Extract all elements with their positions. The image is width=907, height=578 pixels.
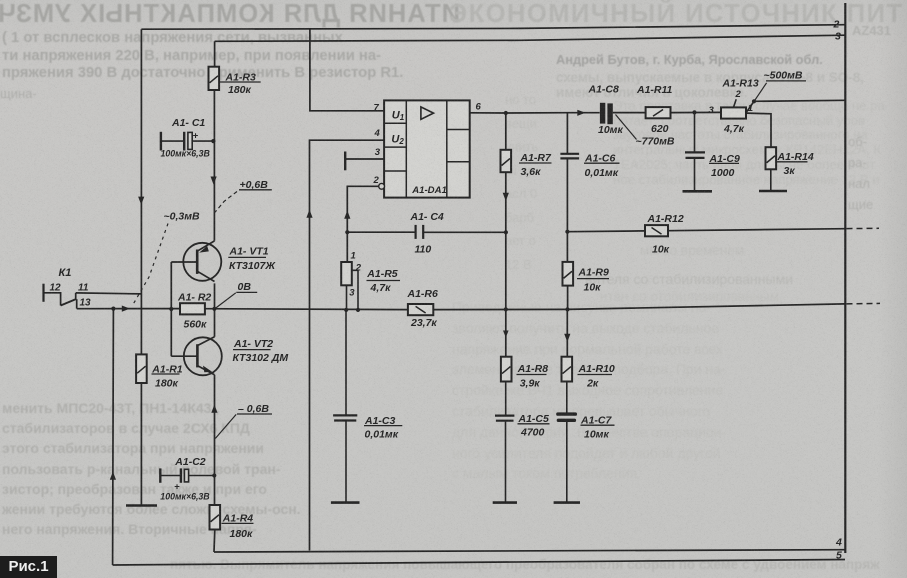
resistor R14 xyxy=(766,147,777,169)
underline R8 xyxy=(517,374,547,376)
leader ~0.3mV dashed xyxy=(133,224,168,305)
wire R3 rail top xyxy=(214,41,216,66)
R5 wiper lead xyxy=(352,270,358,310)
junction dot pin6-R7 xyxy=(504,111,508,115)
wire pin 2 xyxy=(347,186,378,262)
resistor R2 xyxy=(180,303,205,314)
capacitor C3 plates xyxy=(333,415,357,420)
svg-text:A1- R2: A1- R2 xyxy=(177,291,211,303)
arrow down on R7 rail xyxy=(503,193,509,201)
svg-text:A1- C1: A1- C1 xyxy=(171,117,205,129)
label ~770mV xyxy=(636,135,675,147)
resistor R9 xyxy=(563,262,574,286)
capacitor C2 plate xyxy=(180,468,182,482)
junction dot R7 main xyxy=(504,307,508,311)
wire C2 right lead xyxy=(189,475,215,477)
svg-text:180к: 180к xyxy=(155,378,179,390)
label ~500mV xyxy=(764,70,803,82)
arrow on main wire xyxy=(122,306,130,312)
svg-text:10мк: 10мк xyxy=(598,124,623,136)
switch K1 terminal 12 tick xyxy=(42,284,44,302)
label U2 cell xyxy=(391,133,404,146)
svg-text:10мк: 10мк xyxy=(584,428,609,440)
label A1-C8 xyxy=(588,83,620,95)
wire main to C3 xyxy=(345,310,347,416)
svg-text:A1-R8: A1-R8 xyxy=(517,363,549,375)
wire bottom rail B to terminal 5 xyxy=(113,560,845,566)
underline R7 xyxy=(519,162,552,164)
junction dot R12 wire xyxy=(565,230,569,234)
underline C5 xyxy=(518,423,550,425)
svg-text:3: 3 xyxy=(709,105,715,116)
svg-text:110: 110 xyxy=(415,243,432,255)
underline -0.6V xyxy=(237,413,272,415)
label A1-VT2 xyxy=(233,338,273,350)
svg-text:К1: К1 xyxy=(59,267,72,279)
arrow on stem xyxy=(110,472,116,480)
value R10 2k xyxy=(586,377,599,389)
svg-text:3: 3 xyxy=(349,287,355,298)
capacitor C1 common bar xyxy=(160,132,162,151)
wire R1 to common stub xyxy=(140,383,142,506)
svg-text:A1-C7: A1-C7 xyxy=(580,414,613,426)
value C7 10mk xyxy=(584,428,609,440)
leader ~500mV xyxy=(755,83,767,101)
switch pin 12 label xyxy=(50,282,62,293)
value C3 0.01mk xyxy=(365,428,399,440)
wire base rail xyxy=(170,262,172,356)
svg-text:A1-R7: A1-R7 xyxy=(520,152,553,164)
op-amp left cell line 2 xyxy=(384,146,406,148)
wire C4 right lead xyxy=(423,231,506,233)
R13 pin 1 label xyxy=(748,103,753,114)
underline C7 xyxy=(581,424,615,426)
wire switch terminal 12 lead xyxy=(44,293,61,306)
wire R14 to common xyxy=(770,169,772,191)
arrow up on pin4 rail xyxy=(306,210,312,218)
wire pin 4 xyxy=(310,140,385,550)
wire output to frame xyxy=(754,100,845,101)
label A1-C5 xyxy=(518,413,550,425)
wire R7 to main xyxy=(505,172,507,309)
value C5 4700 xyxy=(520,427,545,439)
wire VT2 emitter down xyxy=(214,375,216,505)
junction dot C4 left xyxy=(345,230,349,234)
label A1-R4 xyxy=(222,513,254,525)
svg-text:4,7к: 4,7к xyxy=(370,282,392,294)
op-amp triangle symbol xyxy=(421,107,434,119)
svg-text:+: + xyxy=(193,131,199,142)
label VT1 type KT3107Zh xyxy=(229,260,276,272)
wire C6 to R9 xyxy=(566,158,568,262)
label A1-DA1 xyxy=(411,185,447,196)
underline R14 xyxy=(777,161,808,163)
underline R10 xyxy=(578,374,613,376)
R5 pin 1 label xyxy=(351,251,356,262)
label A1-R13 xyxy=(722,78,759,90)
underline VT1 xyxy=(228,256,266,258)
value R6 23.7k xyxy=(410,317,437,329)
svg-text:КТ3107Ж: КТ3107Ж xyxy=(229,260,276,272)
wire C4 left lead xyxy=(347,231,415,233)
wire R12 right xyxy=(668,229,845,231)
svg-text:A1- C4: A1- C4 xyxy=(410,211,444,223)
R13 pin 2 label xyxy=(735,89,742,100)
label A1-R1 xyxy=(151,364,183,376)
R13 pin 3 label xyxy=(709,105,715,116)
underline 0V xyxy=(236,291,257,293)
value R14 3k xyxy=(784,165,796,177)
svg-text:560к: 560к xyxy=(184,318,208,330)
svg-text:A1-R10: A1-R10 xyxy=(578,363,615,375)
op-amp left strip divider xyxy=(405,100,407,197)
arrow down above R8 xyxy=(503,331,509,338)
label U1 cell xyxy=(392,110,405,123)
svg-text:A1-DA1: A1-DA1 xyxy=(411,185,447,196)
underline R3 xyxy=(220,81,261,83)
capacitor C5 plates xyxy=(495,416,514,421)
svg-text:12: 12 xyxy=(50,282,62,293)
value R13 4.7k xyxy=(723,123,745,135)
wire C1 left lead xyxy=(161,140,184,142)
wire main horizontal (node 0V line) xyxy=(77,308,180,310)
wire main to R8 xyxy=(505,309,507,356)
wire C8 to R11 xyxy=(613,112,646,114)
common bar pin 3 xyxy=(344,152,346,171)
arrow up on pin2 rail xyxy=(344,211,350,219)
common bar below C9 xyxy=(683,190,713,193)
svg-text:2: 2 xyxy=(735,89,742,100)
svg-text:КТ3102 ДМ: КТ3102 ДМ xyxy=(233,352,289,364)
label A1-R2 xyxy=(177,291,211,303)
resistor R4 xyxy=(210,505,221,530)
op-amp left cell line 1 xyxy=(384,122,406,124)
label A1-R5 xyxy=(366,268,398,280)
label A1-R11 xyxy=(636,84,673,96)
svg-text:0,01мк: 0,01мк xyxy=(585,167,619,179)
svg-text:2: 2 xyxy=(833,19,840,31)
label A1-C3 xyxy=(364,415,396,427)
label -0.6V xyxy=(238,403,269,415)
op-amp pin 3 label xyxy=(375,147,381,158)
svg-text:180к: 180к xyxy=(230,528,254,540)
wire switch contact 11 to left rail xyxy=(76,293,142,294)
label A1-R12 xyxy=(647,213,684,225)
arrow up on VT2 emitter rail xyxy=(211,405,217,413)
leader ~770mV xyxy=(616,115,637,140)
VT2 emitter xyxy=(197,366,214,375)
svg-text:A1-R11: A1-R11 xyxy=(636,84,673,96)
value R4 180k xyxy=(230,528,254,540)
wire R11 to R13 xyxy=(671,111,722,113)
common bar below C5 xyxy=(493,501,517,504)
value R5 4.7k xyxy=(370,282,392,294)
terminal 3 label xyxy=(835,30,841,42)
terminal 2 label xyxy=(833,19,840,31)
terminal 5 label xyxy=(836,550,842,562)
frame right border line xyxy=(844,3,846,553)
resistor R8 xyxy=(501,357,512,382)
VT2 base lead xyxy=(171,355,197,357)
svg-text:A1-C5: A1-C5 xyxy=(518,413,550,425)
wire stem to bottom rail 5 xyxy=(112,309,115,565)
switch contact 11 stub xyxy=(75,293,77,299)
common bar below C3 xyxy=(331,501,360,504)
wire main to R10 xyxy=(566,309,568,356)
wire pin 7 xyxy=(310,29,384,111)
svg-text:A1- VT2: A1- VT2 xyxy=(233,338,273,350)
svg-text:4: 4 xyxy=(835,537,842,549)
leader -0.6V xyxy=(215,414,236,438)
value R2 560k xyxy=(184,318,208,330)
wire R10 to C7 xyxy=(566,382,568,414)
underline R9 xyxy=(577,278,609,280)
svg-text:4: 4 xyxy=(374,128,381,139)
value C9 1000 xyxy=(711,167,735,179)
svg-text:100мк×6,3В: 100мк×6,3В xyxy=(160,492,210,502)
VT1 emitter xyxy=(197,241,214,253)
value C2 100mk xyxy=(160,492,210,502)
svg-text:3к: 3к xyxy=(784,165,796,177)
svg-text:4,7к: 4,7к xyxy=(723,123,745,135)
transistor VT2 circle xyxy=(184,337,222,375)
wire R8 to C5 xyxy=(505,382,507,416)
common bar below C7 xyxy=(554,501,580,504)
label A1-C7 xyxy=(580,414,613,426)
svg-text:13: 13 xyxy=(80,297,92,308)
VT1 collector xyxy=(197,271,214,281)
wire pin 3 xyxy=(345,158,384,160)
wire C1 right lead xyxy=(192,140,213,142)
op-amp pin 4 label xyxy=(374,128,381,139)
value R7 3.6k xyxy=(521,166,542,178)
svg-text:A1-R6: A1-R6 xyxy=(407,288,439,300)
wire C3 to common xyxy=(345,421,347,503)
op-amp mid divider xyxy=(446,100,448,197)
value R1 180k xyxy=(155,378,179,390)
svg-text:A1- VT1: A1- VT1 xyxy=(229,246,269,258)
potentiometer R13 xyxy=(721,107,746,118)
potentiometer R5 xyxy=(341,262,352,285)
wire C7 to common xyxy=(566,422,568,503)
svg-text:A1-C2: A1-C2 xyxy=(174,456,206,468)
label A1-R3 xyxy=(225,72,257,84)
underline C9 xyxy=(709,162,739,164)
svg-text:~0,3мВ: ~0,3мВ xyxy=(164,211,200,223)
op-amp right cell line 2 xyxy=(447,161,470,163)
label A1-C4 title xyxy=(410,211,444,223)
svg-text:0В: 0В xyxy=(238,281,252,293)
switch K1 blade xyxy=(61,299,77,306)
switch pin 13 label xyxy=(80,297,92,308)
svg-text:0,01мк: 0,01мк xyxy=(365,428,399,440)
value R9 10k xyxy=(584,282,602,294)
op-amp U1 outer box xyxy=(384,100,470,197)
R5 bottom lead xyxy=(346,285,348,310)
underline R1 xyxy=(152,373,180,375)
arrow on left rail xyxy=(138,197,144,205)
switch pin 11 label xyxy=(78,282,89,293)
switch K1 label xyxy=(59,267,72,279)
junction dot 0V node xyxy=(212,307,216,311)
capacitor C9 plates xyxy=(685,152,705,158)
switch contact 13 stub xyxy=(76,299,78,308)
wire bottom rail A to terminal 4 xyxy=(214,550,845,552)
junction dot base rail xyxy=(169,307,173,311)
VT2 collector xyxy=(197,337,214,346)
svg-text:620: 620 xyxy=(651,123,669,135)
svg-text:3: 3 xyxy=(835,30,841,42)
underline C6 xyxy=(584,162,620,164)
label A1-R10 xyxy=(578,363,615,375)
op-amp pin 2 label xyxy=(373,175,380,186)
R5 pin 3 label xyxy=(349,287,355,298)
capacitor C2 plus electrode xyxy=(174,469,188,492)
wire main right xyxy=(433,304,845,310)
wire R9 to main xyxy=(567,286,569,310)
label +0.6V xyxy=(240,179,269,191)
VT1 base bar xyxy=(196,250,199,274)
wire top rail to terminal 2 xyxy=(141,25,845,30)
junction dot C4 right xyxy=(504,230,508,234)
svg-text:2: 2 xyxy=(373,175,380,186)
label A1-R6 xyxy=(407,288,439,300)
svg-text:A1-R13: A1-R13 xyxy=(722,78,759,90)
op-amp pin 7 label xyxy=(374,102,380,113)
underline VT2 xyxy=(233,349,271,351)
underline C3 xyxy=(364,425,402,427)
svg-text:3,9к: 3,9к xyxy=(520,377,541,389)
svg-text:~500мВ: ~500мВ xyxy=(764,70,803,82)
label A1-R7 xyxy=(520,152,553,164)
value R11 620 xyxy=(651,123,669,135)
capacitor C7 plates xyxy=(556,412,577,422)
R5 pin 2 label xyxy=(355,262,362,273)
VT2 base bar xyxy=(196,344,199,367)
resistor R6 xyxy=(408,304,433,315)
value C8 10mk xyxy=(598,124,623,136)
op-amp left cell line 3 xyxy=(384,170,406,172)
label A1-C9 xyxy=(709,153,741,165)
junction dot R5 wiper xyxy=(356,308,360,312)
svg-text:A1-R14: A1-R14 xyxy=(777,151,814,163)
resistor R7 xyxy=(501,150,512,172)
value C1 100mk xyxy=(161,148,211,158)
op-amp pin 2 inversion bubble xyxy=(379,183,385,189)
capacitor C8 plates xyxy=(600,103,613,124)
arrow down on emitter rail xyxy=(211,177,217,185)
wire C2 left lead xyxy=(160,475,181,477)
label A1-C6 xyxy=(584,152,616,164)
terminal 4 label xyxy=(835,537,842,549)
wire C9 stem bottom xyxy=(694,158,696,191)
common bar below R14 xyxy=(759,190,787,193)
wire VT1 collector to node xyxy=(214,283,216,309)
value C6 0.01mk xyxy=(585,167,619,179)
svg-text:A1-R5: A1-R5 xyxy=(366,268,398,280)
node junction dot x113 xyxy=(111,307,115,311)
junction dot C9 top xyxy=(692,110,696,114)
svg-text:A1-R4: A1-R4 xyxy=(222,513,254,525)
svg-text:A1-R9: A1-R9 xyxy=(578,266,610,278)
label A1-C1 xyxy=(171,117,205,129)
svg-text:2к: 2к xyxy=(586,377,599,389)
label A1-VT1 xyxy=(229,246,269,258)
underline ~500mV xyxy=(766,80,806,82)
svg-text:6: 6 xyxy=(476,102,482,113)
svg-text:3,6к: 3,6к xyxy=(521,166,542,178)
wire pin6 rail to R7 xyxy=(505,113,507,150)
svg-text:5: 5 xyxy=(836,550,842,562)
svg-text:1: 1 xyxy=(351,251,356,262)
svg-text:4700: 4700 xyxy=(520,427,545,439)
svg-text:A1-R12: A1-R12 xyxy=(647,213,684,225)
junction dot C2 right xyxy=(212,473,216,477)
figure caption Ris.1 xyxy=(0,556,57,578)
resistor R12 xyxy=(645,225,668,236)
underline +0.6V xyxy=(239,189,272,191)
wire pin6 rail to C6 xyxy=(566,113,568,154)
wire main middle xyxy=(205,308,408,311)
value R3 180k xyxy=(228,84,252,96)
leader 0V xyxy=(215,293,236,309)
leader +0.6V dashed xyxy=(215,192,237,213)
underline R5 xyxy=(367,280,401,282)
resistor R3 xyxy=(209,67,220,90)
arrow on pin6 wire xyxy=(577,110,585,116)
R13 wiper stub xyxy=(734,99,737,107)
VT1 base lead xyxy=(171,261,197,263)
wire R12 left xyxy=(567,230,645,233)
underline R4 xyxy=(222,522,254,524)
wire left rail vertical xyxy=(140,29,142,354)
op-amp pin 6 label xyxy=(476,102,482,113)
svg-text:10к: 10к xyxy=(584,282,602,294)
label 0V xyxy=(238,281,252,293)
transistor VT1 circle xyxy=(183,243,221,281)
svg-text:– 0,6В: – 0,6В xyxy=(238,403,269,415)
wire R13 to R14 xyxy=(746,113,771,147)
value R8 3.9k xyxy=(520,377,541,389)
junction dot R5 bottom xyxy=(344,308,348,312)
label VT2 type KT3102DM xyxy=(233,352,289,364)
value R12 10k xyxy=(652,243,670,255)
value C4 110 xyxy=(415,243,432,255)
wire R13 pin1 up to output xyxy=(746,101,754,113)
junction dot R9 main xyxy=(565,307,569,311)
ghost page background texture xyxy=(0,0,460,29)
svg-text:10к: 10к xyxy=(652,243,670,255)
svg-text:11: 11 xyxy=(78,282,89,293)
svg-text:100мк×6,3В: 100мк×6,3В xyxy=(161,148,211,158)
junction dot C1 right xyxy=(211,139,215,143)
svg-text:A1-C8: A1-C8 xyxy=(588,83,620,95)
svg-text:~770мВ: ~770мВ xyxy=(636,135,675,147)
capacitor C4 plates xyxy=(416,225,424,239)
junction dot output node xyxy=(752,99,756,103)
label A1-C2 xyxy=(174,456,206,468)
arrow down above R10 xyxy=(564,334,570,342)
op-amp right cell line 1 xyxy=(447,129,470,131)
capacitor C1 plus electrode xyxy=(188,131,199,150)
wire C5 to common xyxy=(505,421,507,503)
label ~0.3mV xyxy=(164,211,200,223)
wire R4 to bottom rail A xyxy=(213,530,216,553)
wire pin 6 output xyxy=(470,112,600,114)
wire 0V node to VT2 collector xyxy=(214,309,216,337)
wire R12 dashed continuation xyxy=(847,227,880,229)
resistor R11 xyxy=(646,107,671,118)
